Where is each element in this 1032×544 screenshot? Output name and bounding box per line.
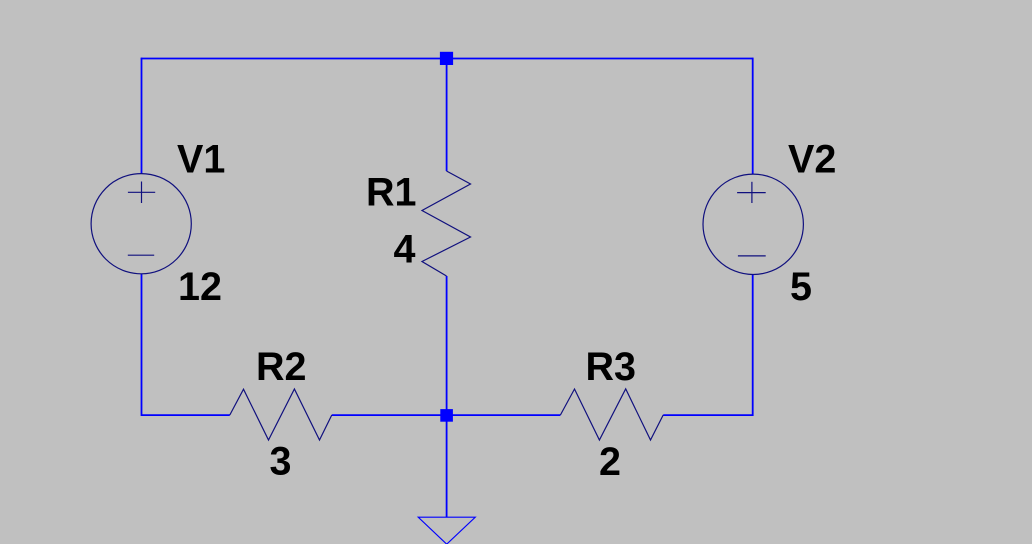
svg-text:3: 3 [270,440,292,484]
svg-text:V2: V2 [788,138,836,182]
svg-text:4: 4 [394,228,416,272]
svg-text:R1: R1 [366,170,417,214]
svg-text:2: 2 [599,440,621,484]
svg-text:R3: R3 [586,345,637,389]
svg-text:12: 12 [178,265,222,309]
svg-text:V1: V1 [177,138,225,182]
svg-text:R2: R2 [256,345,307,389]
svg-text:5: 5 [790,265,812,309]
